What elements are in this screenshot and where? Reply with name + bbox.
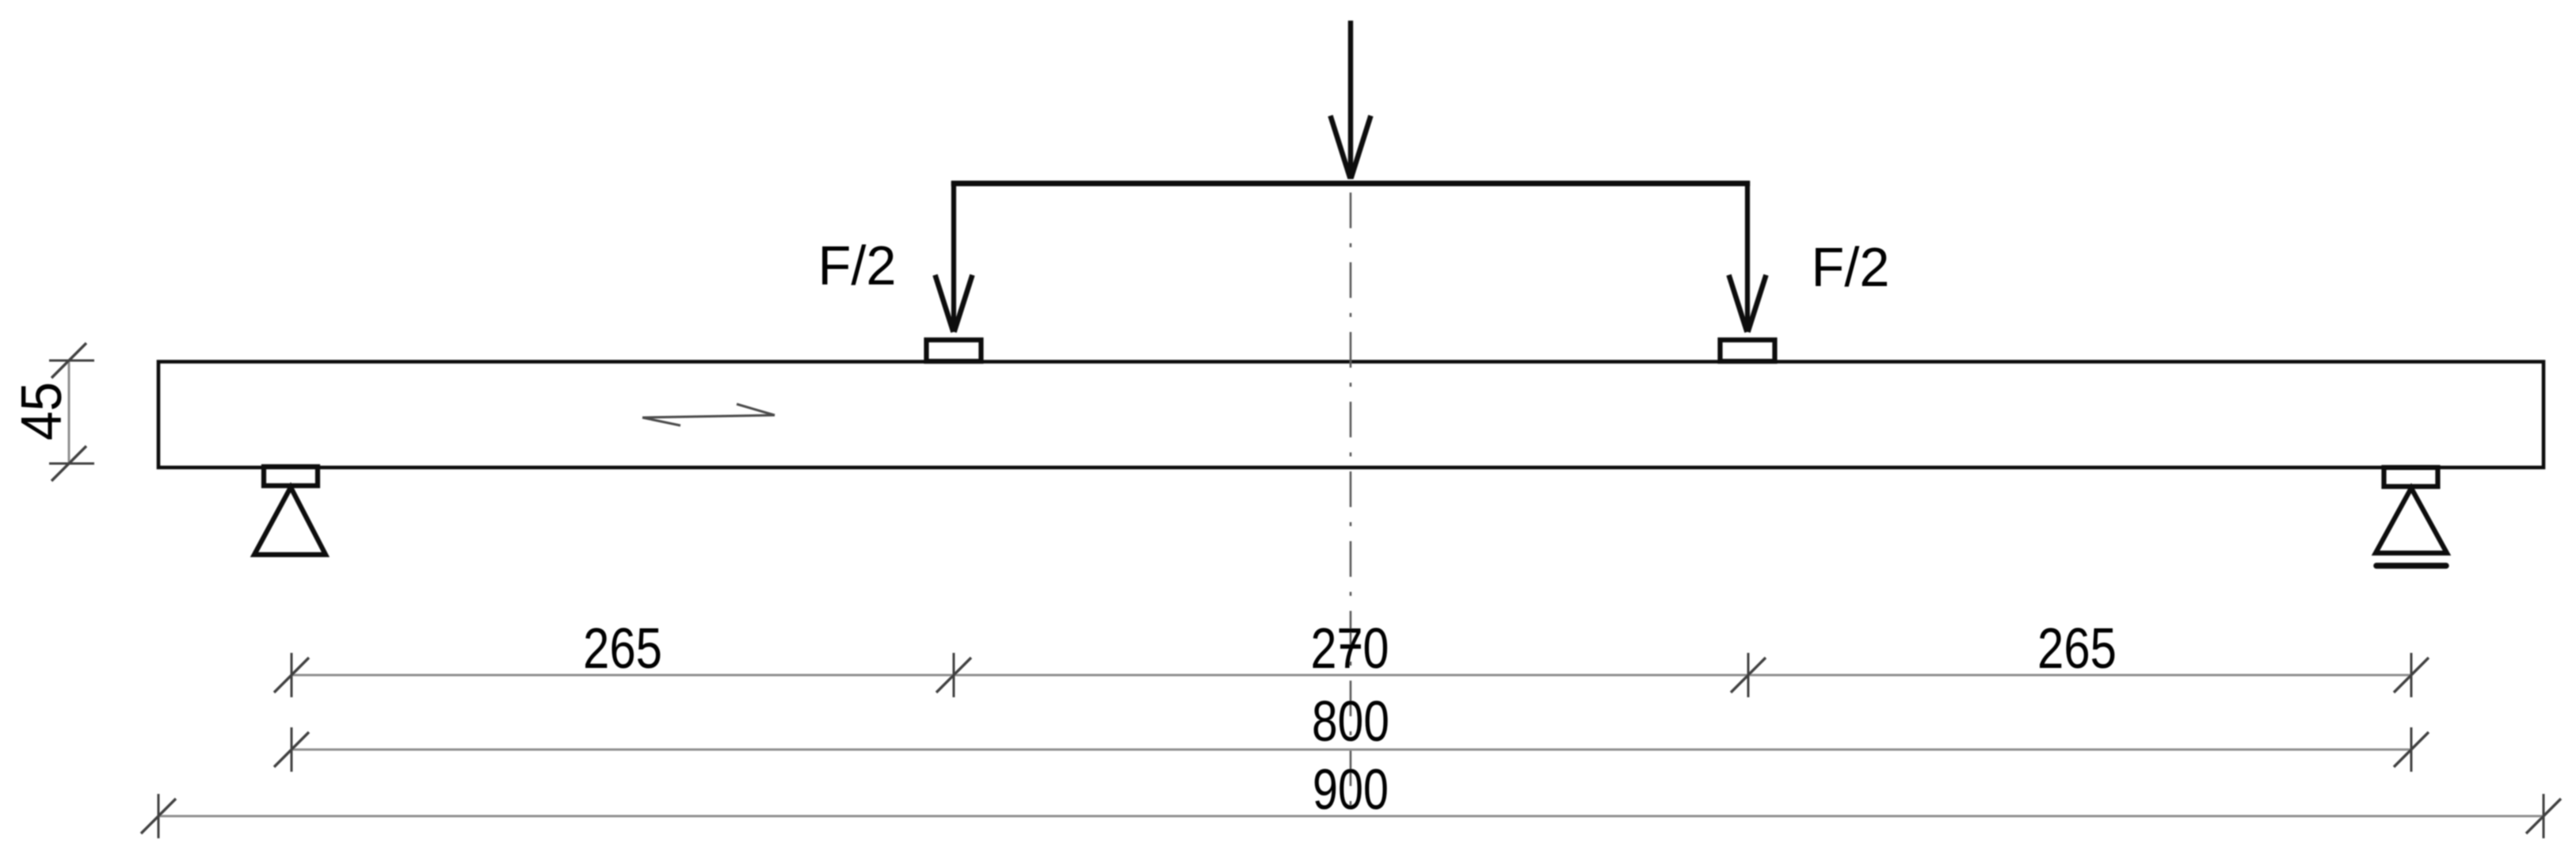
spreader bar (951, 181, 1750, 186)
roller line (2376, 563, 2446, 569)
tick row1 at 3044 (2394, 653, 2429, 697)
crack / shear mark inside beam (642, 404, 775, 425)
svg-text:900: 900 (1313, 758, 1389, 822)
F/2 arrow left (leg + head) (936, 181, 973, 332)
tick 45-dim bottom (49, 446, 94, 481)
height dimension 45 (left side) (68, 360, 70, 464)
svg-text:265: 265 (583, 617, 662, 681)
load pad left (927, 340, 981, 361)
support pad right (2384, 467, 2438, 486)
tick row3 at 3211 (2526, 794, 2561, 838)
tick row2 at 3044 (2394, 727, 2429, 772)
force arrow F (central, top) (1331, 21, 1371, 179)
tick row2 at 368 (274, 727, 309, 772)
dimension line row 3 (900) (158, 815, 2544, 818)
tick row1 at 1204 (936, 653, 971, 697)
support pad left (264, 467, 318, 486)
beam (test specimen) (158, 362, 2544, 468)
centerline (dash-dot axis) (1350, 193, 1352, 817)
roller support right (triangle) (2376, 488, 2447, 553)
svg-text:800: 800 (1312, 690, 1389, 754)
tick row1 at 368 (274, 653, 309, 697)
tick row1 at 2207 (1731, 653, 1766, 697)
load pad right (1721, 340, 1775, 361)
svg-text:F/2: F/2 (1812, 236, 1890, 298)
dimension line row 1 (265 / 270 / 265) (292, 674, 2411, 677)
svg-text:45: 45 (10, 382, 74, 441)
svg-text:270: 270 (1311, 617, 1389, 681)
tick 45-dim top (49, 343, 94, 378)
dimension line row 2 (800) (292, 749, 2411, 751)
tick row3 at 200 (141, 794, 176, 838)
F/2 arrow right (leg + head) (1729, 181, 1766, 332)
svg-text:F/2: F/2 (818, 235, 897, 296)
svg-text:265: 265 (2037, 617, 2117, 681)
crossbar of european 7 in 270 (1340, 644, 1361, 649)
pinned support left (triangle) (254, 487, 326, 555)
